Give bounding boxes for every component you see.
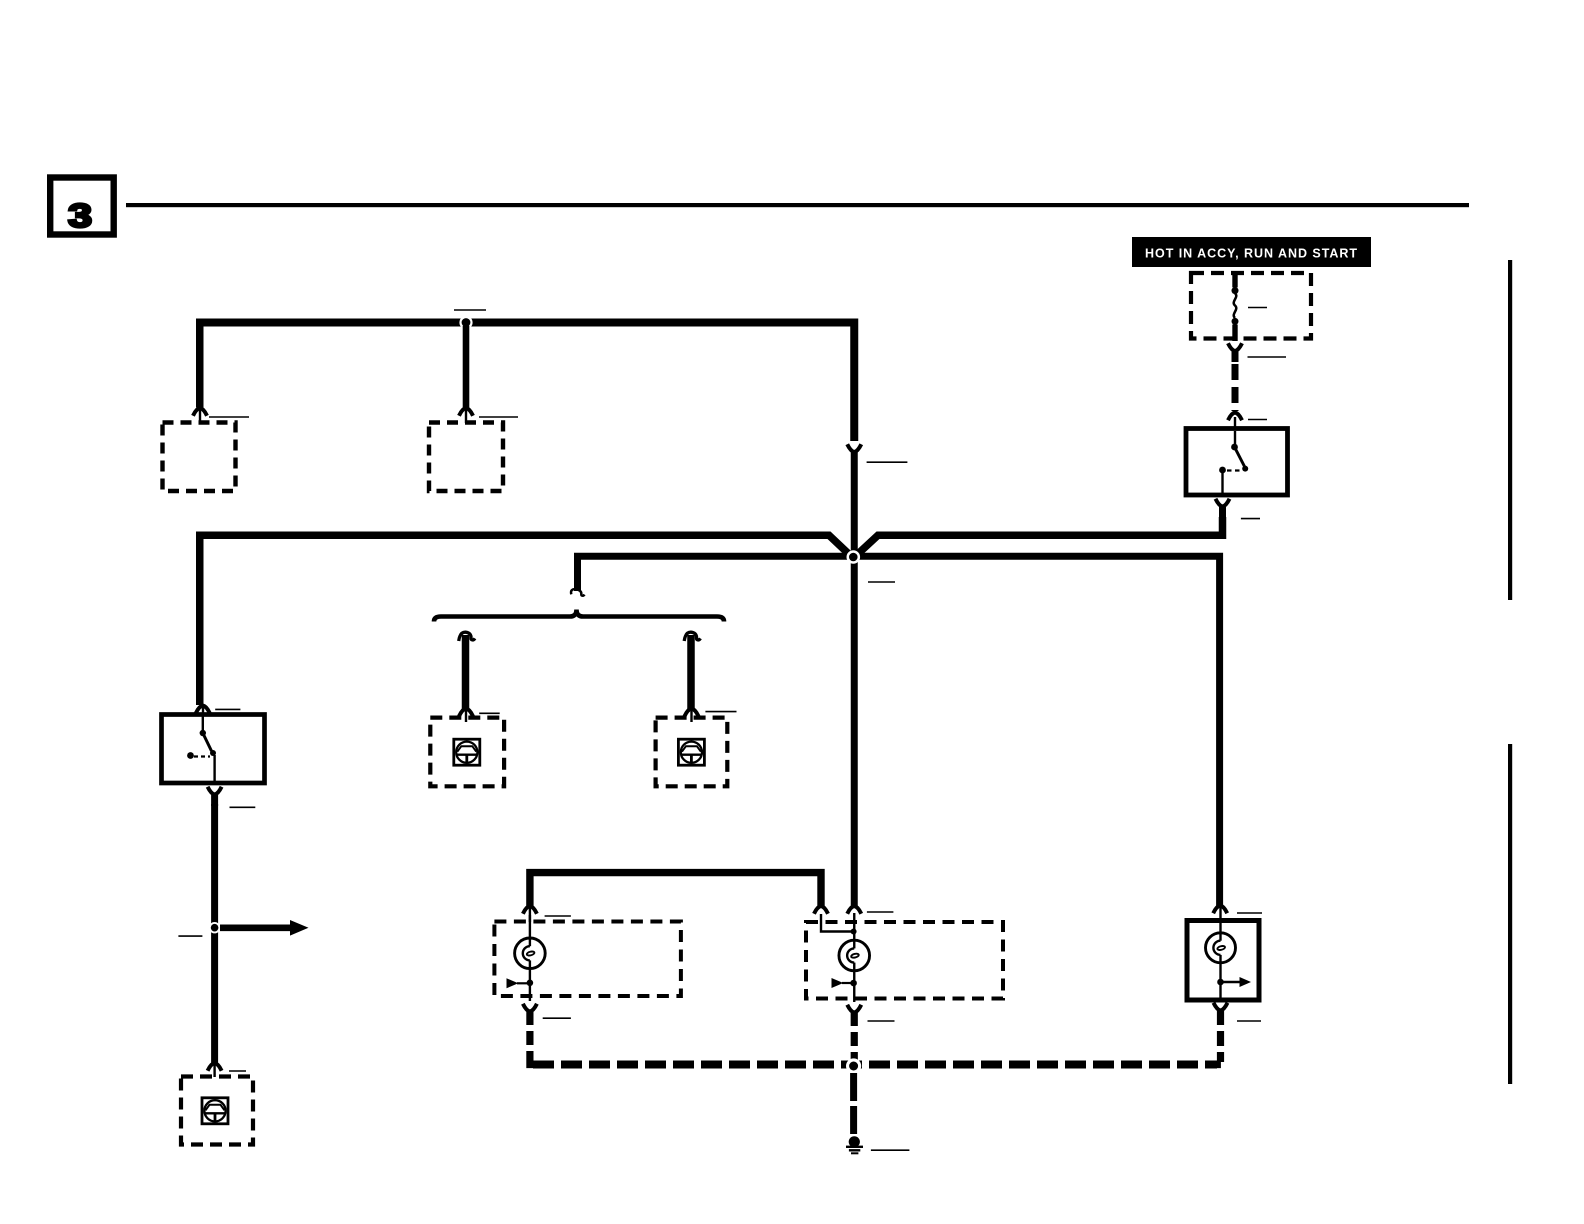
right margin line (upper segment) [1508, 260, 1512, 600]
wire: brace drop to horn 2 [684, 632, 700, 709]
wire label line (ignition output) [1241, 518, 1260, 520]
inline connector on main vertical wire [847, 444, 861, 452]
wire label line (lamp C input) [1237, 912, 1262, 914]
wire: lamp feed horizontal [530, 873, 821, 907]
ignition switch contacts [1219, 431, 1248, 495]
wire label line (horn 1) [479, 712, 500, 714]
wire label line (box B) [479, 416, 518, 418]
node label line (main junction) [868, 581, 895, 583]
connector below lamp A [523, 1004, 537, 1012]
wire: drop to ground (dashed) [850, 1073, 857, 1136]
horn 3 connector box (dashed, bottom left) [181, 1077, 253, 1145]
right margin line (lower segment) [1508, 744, 1512, 1084]
wire: drop to connector box A [200, 323, 204, 408]
wire: dashed wire fuse to ignition switch [1232, 364, 1239, 411]
wire: horn switch to horn connector [211, 804, 218, 1063]
wire: left feed (y=535) to horn switch [200, 535, 852, 705]
wire label line (lamp A input) [545, 915, 571, 917]
power label: HOT IN ACCY, RUN AND START [1132, 237, 1371, 267]
lamp C box [1187, 921, 1259, 1001]
wire label line (horn switch input) [215, 708, 240, 710]
wire label line (main vertical) [867, 461, 908, 463]
node: ground bus junction [846, 1058, 861, 1073]
wire: lamp A to ground bus (dashed) [530, 1011, 538, 1065]
wire label line (lamp B input) [867, 911, 894, 913]
connector box B (dashed) [429, 423, 503, 492]
wire label line (horn 3 input) [229, 1070, 246, 1072]
ground G1 [846, 1136, 863, 1154]
connector above horn 1 [459, 708, 473, 722]
fuse F1 [1232, 272, 1239, 341]
wire: top bus with right corner drop [196, 319, 854, 442]
node label line (bus junction) [454, 309, 486, 311]
fuse value label line [1248, 307, 1267, 309]
ignition switch box [1186, 429, 1288, 496]
wire label line (fuse output) [1248, 356, 1287, 358]
node label line (horn feed tap) [178, 935, 202, 937]
connector below lamp C [1214, 1003, 1228, 1011]
connector above ignition switch [1228, 413, 1242, 431]
connector pair below fuse [1228, 343, 1242, 362]
connector below ignition switch [1216, 499, 1230, 518]
svg-text:HOT IN ACCY, RUN AND START: HOT IN ACCY, RUN AND START [1145, 246, 1358, 261]
connector above lamp B left pin [814, 906, 828, 914]
wire: drop to connector box B [463, 326, 470, 408]
wire: brace drop to horn 1 [459, 632, 475, 709]
svg-text:3: 3 [68, 198, 92, 235]
connector box (fuse carrier, dashed) [1191, 273, 1311, 339]
node: junction on top bus [459, 316, 472, 329]
connector above box A [193, 408, 207, 423]
page index box "3" [50, 178, 113, 235]
wire label line (box A) [209, 416, 249, 418]
node: horn feed tap [209, 922, 220, 933]
connector below horn switch [208, 787, 222, 806]
wire: ground bus (dashed) [533, 1061, 1217, 1069]
wire: lamp C to ground bus (dashed) [1213, 1010, 1221, 1065]
lamp B bulb [821, 913, 870, 1002]
node: main junction [847, 550, 861, 564]
horn switch box [162, 715, 265, 784]
lamp A bulb [507, 915, 546, 1001]
horn 2 symbol (steering wheel) [678, 739, 704, 765]
connector above lamp B right pin [847, 906, 861, 914]
horn 2 connector box (dashed) [656, 718, 728, 787]
wire: main vertical (junction through lamps) [851, 450, 858, 907]
wire label line (lamp A output) [543, 1017, 571, 1019]
horn 3 symbol (steering wheel) [202, 1098, 228, 1124]
connector above horn 3 [208, 1063, 222, 1077]
horn 1 symbol (steering wheel) [454, 739, 480, 765]
wire: lamp B to ground bus (dashed) [851, 1012, 858, 1062]
wire label line (ignition input) [1248, 419, 1267, 421]
connector below lamp B [847, 1005, 861, 1013]
wire: ignition switch feed to junction (y=535) [855, 517, 1223, 557]
wire label line (horn switch output) [230, 806, 256, 808]
horn 1 connector box (dashed) [430, 718, 504, 787]
connector above lamp C [1213, 905, 1227, 921]
ground label line [871, 1149, 910, 1151]
arrow: feed to horn relay (off-page) [220, 920, 309, 936]
connector above horn 2 [685, 708, 699, 722]
header rule [126, 203, 1469, 207]
lamp C bulb [1206, 921, 1252, 1001]
horn switch contacts [187, 715, 216, 784]
connector above horn switch [196, 705, 210, 715]
wire label line (lamp B output) [868, 1020, 895, 1022]
connector above box B [459, 408, 473, 423]
connector box A (dashed) [163, 423, 236, 492]
brace pointer ornament [571, 589, 584, 596]
wire label line (horn 2) [705, 711, 736, 713]
lamp A housing (dashed) [494, 922, 681, 997]
brace (bundle indicator) [434, 610, 724, 622]
wire: lower horizontal (y=556) with right drop to lamp C [578, 556, 1220, 906]
connector above lamp A [523, 906, 537, 922]
wire label line (lamp C output) [1237, 1020, 1261, 1022]
lamp B housing (dashed) [806, 922, 1003, 999]
